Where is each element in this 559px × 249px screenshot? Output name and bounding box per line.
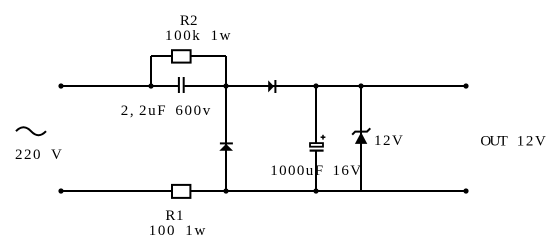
svg-text:R2: R2 <box>180 13 198 29</box>
svg-text:100 1w: 100 1w <box>149 223 206 239</box>
svg-text:12V: 12V <box>374 133 403 149</box>
svg-text:R1: R1 <box>165 208 183 224</box>
svg-text:220 V: 220 V <box>15 147 62 163</box>
svg-text:100k 1w: 100k 1w <box>165 28 231 44</box>
svg-text:1000uF 16V: 1000uF 16V <box>270 163 361 179</box>
